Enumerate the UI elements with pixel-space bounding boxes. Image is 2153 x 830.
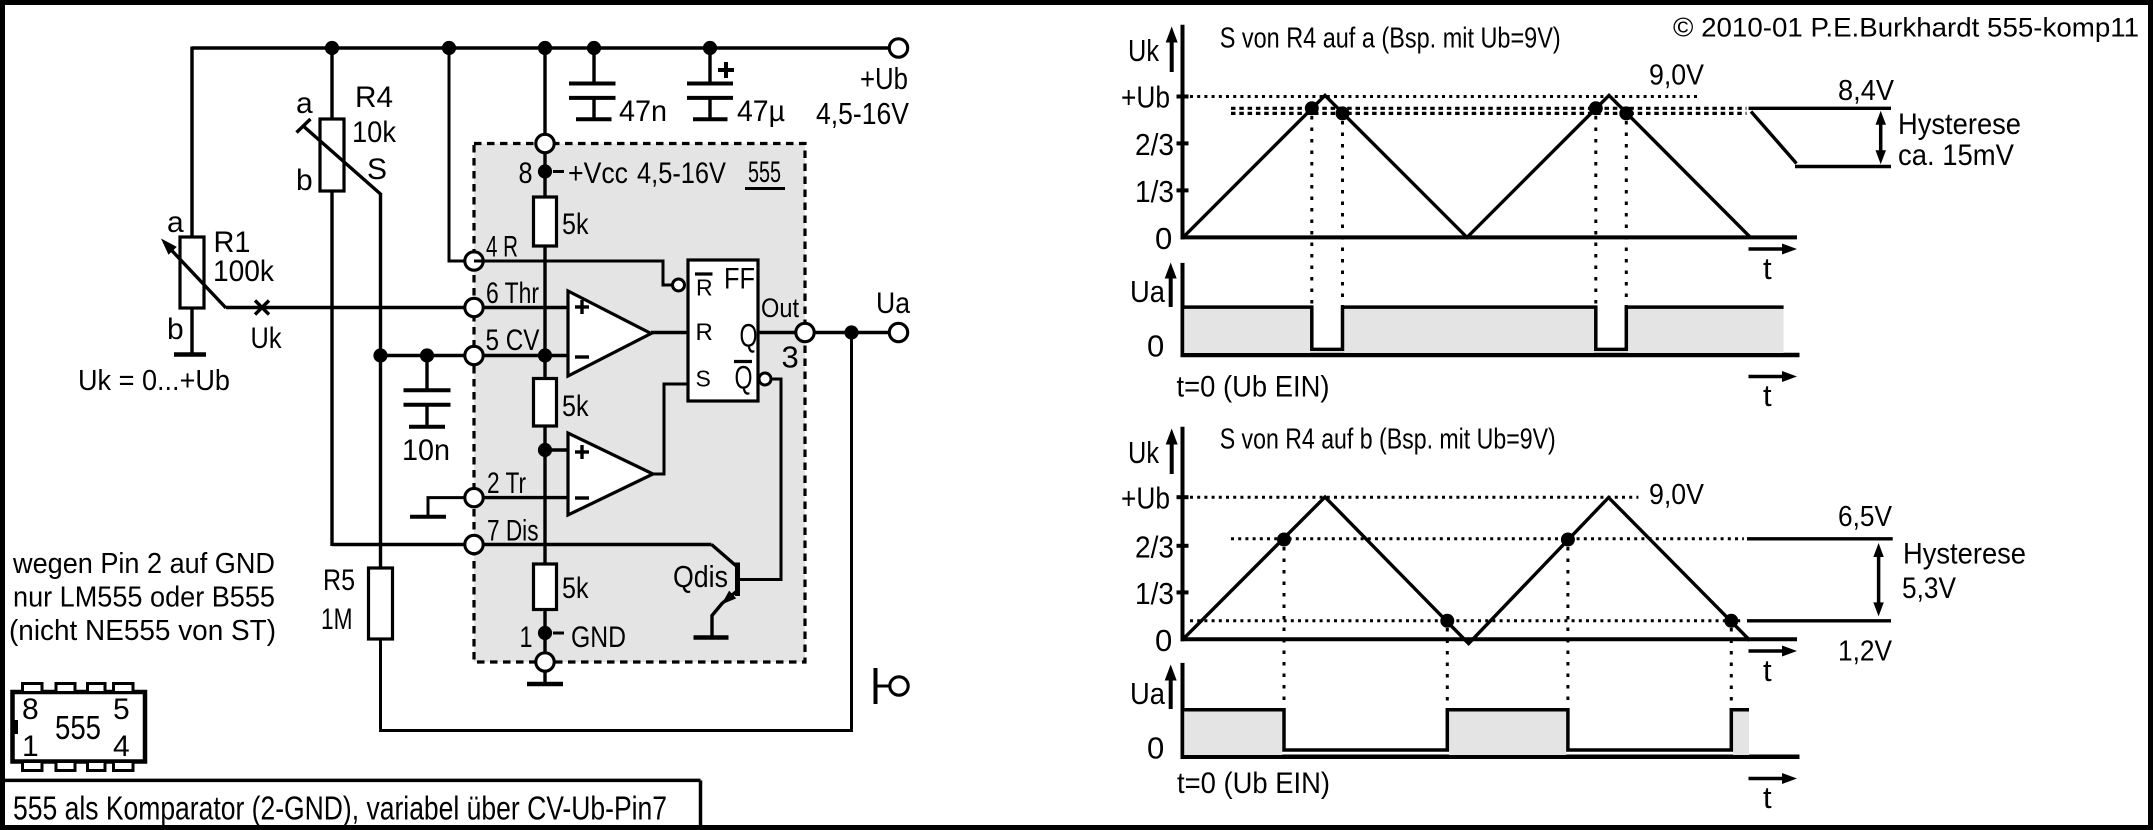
wire R4 wiper to CV node bbox=[379, 193, 382, 356]
diagram B Ua x-axis bbox=[1181, 755, 1800, 760]
diagram B hysteresis double arrow bbox=[1877, 550, 1881, 609]
pin 6 circle bbox=[465, 298, 483, 316]
diagram B trigger dot 3 bbox=[1561, 533, 1575, 547]
wire R4 top lead bbox=[330, 48, 333, 119]
diagram B Uk t-axis arrow bbox=[1749, 649, 1789, 653]
wire R5 bottom feedback run bbox=[381, 333, 852, 731]
FF R-bar inversion bubble bbox=[673, 279, 685, 291]
svg-text:Ua: Ua bbox=[1130, 676, 1166, 711]
wire +Ub top supply rail bbox=[192, 46, 889, 49]
svg-text:R4: R4 bbox=[355, 81, 393, 114]
diagram B Ua gray fill 2 bbox=[1449, 712, 1566, 756]
diagram A Uk t-axis arrow bbox=[1749, 247, 1789, 251]
ground bar under R1 bbox=[174, 352, 206, 357]
svg-text:GND: GND bbox=[571, 621, 626, 654]
svg-text:6 Thr: 6 Thr bbox=[486, 277, 539, 310]
svg-text:FF: FF bbox=[724, 263, 755, 296]
diagram B Ua waveform bbox=[1183, 710, 1750, 750]
svg-text:Hysterese: Hysterese bbox=[1903, 538, 2026, 571]
diagram B trigger dot 4 bbox=[1724, 614, 1738, 628]
wire Ua output line bbox=[814, 331, 889, 334]
diagram B dotted vertical 2 bbox=[1446, 628, 1449, 710]
comp2 minus sign bbox=[575, 496, 589, 499]
wire pin 8 into chain bbox=[543, 153, 546, 198]
diagram A trigger dot 3 bbox=[1589, 101, 1603, 115]
junction dot pin 1 node bbox=[538, 626, 552, 640]
svg-text:6,5V: 6,5V bbox=[1838, 501, 1893, 533]
wire comp2 output to FF S bbox=[653, 384, 688, 474]
svg-text:Out: Out bbox=[761, 293, 799, 323]
svg-text:0: 0 bbox=[1147, 329, 1164, 364]
svg-text:t: t bbox=[1763, 378, 1772, 413]
svg-text:9,0V: 9,0V bbox=[1649, 59, 1705, 91]
diagram B dotted +Ub level line bbox=[1190, 496, 1638, 499]
svg-text:2/3: 2/3 bbox=[1135, 529, 1174, 564]
svg-text:100k: 100k bbox=[213, 255, 275, 288]
resistor 5k lower bbox=[534, 564, 557, 610]
op-amp comparator 1 bbox=[568, 291, 651, 376]
junction dot rail/C 47n bbox=[587, 41, 601, 55]
pin 8 circle bbox=[536, 134, 554, 152]
svg-text:4,5-16V: 4,5-16V bbox=[816, 96, 909, 131]
resistor 5k upper bbox=[534, 197, 557, 246]
wire Uk wiper line to pin 6 Thr bbox=[226, 306, 568, 309]
svg-text:Uk = 0...+Ub: Uk = 0...+Ub bbox=[78, 365, 230, 397]
svg-text:t: t bbox=[1763, 653, 1772, 688]
555 package pin-1 notch bbox=[11, 720, 18, 734]
wire pin 8 Vcc bbox=[543, 48, 546, 144]
capacitor C 47u bbox=[708, 48, 711, 83]
svg-text:8: 8 bbox=[22, 693, 39, 726]
svg-text:1/3: 1/3 bbox=[1135, 576, 1174, 611]
junction dot Ua/feedback bbox=[844, 325, 858, 339]
svg-text:wegen Pin 2 auf GND: wegen Pin 2 auf GND bbox=[12, 548, 275, 580]
wire FF Q to pin 3 bbox=[758, 331, 805, 334]
svg-text:+Ub: +Ub bbox=[1121, 80, 1170, 115]
diagram A triangle waveform Uk bbox=[1183, 95, 1751, 237]
svg-text:R: R bbox=[696, 319, 713, 346]
wire Q-bar to Qdis base bbox=[740, 379, 782, 580]
svg-text:555: 555 bbox=[748, 156, 781, 189]
svg-text:b: b bbox=[296, 164, 313, 197]
diagram A dotted vertical 1 bbox=[1310, 116, 1313, 307]
diagram B Ua gray fill 3 bbox=[1733, 712, 1749, 756]
svg-text:Uk: Uk bbox=[1128, 435, 1159, 470]
svg-text:S von R4 auf a (Bsp. mit Ub=9V: S von R4 auf a (Bsp. mit Ub=9V) bbox=[1220, 23, 1561, 55]
diagram B trigger dot 1 bbox=[1277, 533, 1291, 547]
diagram B dotted vertical 3 bbox=[1566, 547, 1569, 710]
svg-text:2/3: 2/3 bbox=[1135, 127, 1174, 162]
svg-text:1M: 1M bbox=[321, 603, 353, 636]
pin 1 tie dash bbox=[553, 632, 564, 635]
capacitor C 10n bbox=[425, 356, 428, 389]
svg-text:Qdis: Qdis bbox=[673, 559, 728, 594]
pin 5 circle bbox=[465, 346, 483, 364]
C 47u polarity plus sign bbox=[718, 68, 734, 72]
svg-text:Q: Q bbox=[740, 318, 758, 354]
diagram A trigger dot 1 bbox=[1305, 101, 1319, 115]
svg-text:Ua: Ua bbox=[876, 287, 910, 320]
resistor R5 body bbox=[369, 568, 393, 639]
svg-text:5 CV: 5 CV bbox=[486, 324, 540, 357]
diagram B tick +Ub bbox=[1177, 495, 1189, 499]
wire chain middle-lower bbox=[543, 426, 546, 564]
pin 2 circle bbox=[465, 488, 483, 506]
wire pin 1 ground lead bbox=[543, 672, 546, 683]
junction dot rail/pin8 branch bbox=[538, 41, 552, 55]
svg-text:555 als Komparator (2-GND), va: 555 als Komparator (2-GND), variabel übe… bbox=[13, 790, 667, 827]
FF Q-bar inversion bubble bbox=[759, 373, 771, 385]
R1 wiper arrow bbox=[168, 247, 226, 309]
svg-text:2 Tr: 2 Tr bbox=[487, 467, 526, 500]
diagram B trigger dot 2 bbox=[1440, 614, 1454, 628]
svg-text:(nicht NE555 von ST): (nicht NE555 von ST) bbox=[9, 615, 276, 647]
comp1 plus sign bbox=[575, 305, 589, 308]
diagram B Ua y-axis bbox=[1181, 663, 1185, 757]
transistor Qdis base bar bbox=[735, 563, 740, 597]
svg-text:5,3V: 5,3V bbox=[1902, 572, 1956, 605]
diagram B Uk y-axis bbox=[1181, 427, 1185, 641]
diagram A Ua gray fill 2 bbox=[1344, 309, 1594, 353]
svg-text:5k: 5k bbox=[562, 572, 589, 605]
diagram B tick 2/3 bbox=[1177, 544, 1189, 548]
svg-text:1: 1 bbox=[22, 730, 39, 763]
ground bar under 47n bbox=[576, 117, 612, 121]
svg-text:Uk: Uk bbox=[251, 322, 283, 355]
svg-text:47µ: 47µ bbox=[737, 95, 785, 128]
svg-text:1: 1 bbox=[520, 621, 533, 654]
svg-text:Q: Q bbox=[735, 360, 753, 396]
wire left riser to R1 bbox=[190, 47, 193, 238]
svg-text:+Ub: +Ub bbox=[1121, 481, 1170, 516]
wire rail to pin 4 R bbox=[449, 48, 474, 261]
diagram A Uk y-axis bbox=[1181, 25, 1185, 240]
svg-text:9,0V: 9,0V bbox=[1649, 479, 1705, 511]
svg-text:5: 5 bbox=[113, 693, 130, 726]
pin 3 circle bbox=[796, 323, 814, 341]
diagram B dotted vertical 4 bbox=[1730, 628, 1733, 710]
comp2 plus sign bbox=[575, 450, 589, 453]
svg-text:0: 0 bbox=[1155, 623, 1172, 658]
ground bar Qdis emitter bbox=[694, 635, 729, 640]
junction dot rail/R4 bbox=[325, 41, 339, 55]
svg-text:5k: 5k bbox=[562, 208, 589, 241]
svg-text:Hysterese: Hysterese bbox=[1898, 108, 2021, 141]
resistor 5k middle bbox=[534, 379, 557, 427]
Qdis emitter lead with arrow bbox=[712, 591, 738, 637]
svg-text:+Ub: +Ub bbox=[860, 61, 908, 96]
resistor R1 body bbox=[180, 237, 204, 308]
wire chain to comp2 plus bbox=[545, 448, 568, 451]
junction dot rail/C 47mu bbox=[703, 41, 717, 55]
wire CV line bbox=[381, 354, 569, 357]
svg-text:4: 4 bbox=[113, 730, 130, 763]
svg-text:S: S bbox=[367, 153, 387, 186]
svg-text:b: b bbox=[167, 313, 184, 346]
svg-text:4,5-16V: 4,5-16V bbox=[637, 157, 726, 190]
diagram A dotted trigger level lower bbox=[1231, 112, 1747, 115]
svg-text:t=0 (Ub EIN): t=0 (Ub EIN) bbox=[1177, 371, 1330, 404]
diagram A Ua x-axis bbox=[1181, 353, 1800, 358]
svg-text:nur LM555 oder B555: nur LM555 oder B555 bbox=[13, 582, 275, 614]
diagram A Ua gray fill 3 bbox=[1628, 309, 1784, 353]
diagram A Ua gray fill 1 bbox=[1184, 309, 1310, 353]
diagram A trigger dot 4 bbox=[1619, 106, 1633, 120]
svg-text:R: R bbox=[696, 275, 713, 301]
wire R4 b lead down to Dis line bbox=[330, 191, 333, 546]
diagram A dotted vertical 2 bbox=[1341, 121, 1344, 307]
diagram B dotted 6,5V level line bbox=[1231, 537, 1744, 540]
terminal Ua bbox=[889, 323, 907, 341]
junction dot CV/10n bbox=[420, 348, 434, 362]
diagram A dotted vertical 4 bbox=[1625, 121, 1628, 307]
svg-text:1,2V: 1,2V bbox=[1838, 636, 1893, 668]
svg-text:t: t bbox=[1763, 780, 1772, 815]
pin 8 tie dash bbox=[553, 170, 564, 173]
ground bar pin 1 bbox=[527, 682, 563, 687]
junction dot rail/pin4 branch bbox=[442, 41, 456, 55]
diagram A Uk x-axis bbox=[1181, 235, 1798, 239]
flip-flop FF box bbox=[688, 260, 758, 401]
Qdis collector lead bbox=[712, 545, 739, 568]
svg-text:ca. 15mV: ca. 15mV bbox=[1898, 139, 2014, 172]
svg-text:555: 555 bbox=[55, 709, 101, 746]
R4 wiper diagonal with tick bbox=[304, 127, 381, 195]
svg-text:a: a bbox=[296, 87, 313, 120]
svg-text:0: 0 bbox=[1147, 730, 1164, 765]
diagram A hysteresis double arrow bbox=[1879, 118, 1883, 157]
svg-text:7 Dis: 7 Dis bbox=[487, 515, 539, 548]
terminal +Ub bbox=[889, 39, 907, 57]
svg-text:8,4V: 8,4V bbox=[1838, 75, 1895, 107]
diagram B dotted 1,2V level line bbox=[1190, 619, 1741, 622]
diagram A tick 2/3 bbox=[1177, 141, 1189, 145]
resistor R4 body bbox=[320, 119, 344, 191]
diagram A dotted vertical 3 bbox=[1594, 116, 1597, 307]
svg-text:S von R4 auf b (Bsp. mit Ub=9V: S von R4 auf b (Bsp. mit Ub=9V) bbox=[1220, 424, 1556, 456]
wire pin 2 to ground bbox=[428, 498, 465, 515]
ground bar under 10n bbox=[409, 425, 445, 429]
junction dot CV/R5 bbox=[373, 348, 387, 362]
diagram B Uk x-axis bbox=[1181, 637, 1798, 641]
svg-text:a: a bbox=[167, 206, 184, 239]
svg-text:t: t bbox=[1763, 251, 1772, 286]
svg-text:Ua: Ua bbox=[1130, 274, 1166, 309]
svg-text:R5: R5 bbox=[323, 564, 355, 597]
svg-text:47n: 47n bbox=[619, 95, 667, 128]
svg-text:3: 3 bbox=[782, 340, 799, 375]
wire pin 7 discharge line bbox=[332, 543, 712, 546]
wire comp1 output to FF R bbox=[651, 331, 688, 334]
IC 555 internal block (dashed box) bbox=[474, 144, 805, 663]
wire pin 4 to FF R-bar bbox=[474, 261, 672, 285]
caption box bbox=[3, 779, 701, 783]
svg-text:+Vcc: +Vcc bbox=[568, 157, 628, 190]
svg-text:S: S bbox=[696, 366, 711, 392]
diagram B tick 1/3 bbox=[1177, 590, 1189, 594]
diagram A Ua waveform bbox=[1183, 307, 1784, 349]
diagram A Ua t-axis arrow bbox=[1749, 375, 1789, 379]
diagram A Ua y-axis bbox=[1181, 263, 1185, 355]
diagram B Ua gray fill 1 bbox=[1184, 712, 1282, 756]
diagram B dotted vertical 1 bbox=[1283, 547, 1286, 710]
diagram B Ua t-axis arrow bbox=[1749, 777, 1789, 781]
pin 7 circle bbox=[465, 535, 483, 553]
svg-text:0: 0 bbox=[1155, 221, 1172, 256]
diagram A tick 1/3 bbox=[1177, 188, 1189, 192]
wire chain bottom bbox=[543, 610, 546, 663]
diagram A trigger dot 2 bbox=[1336, 106, 1350, 120]
svg-text:© 2010-01 P.E.Burkhardt 555-ko: © 2010-01 P.E.Burkhardt 555-komp11 bbox=[1673, 13, 2139, 43]
ground bar pin 2 bbox=[410, 515, 446, 519]
555 DIP package outline bbox=[13, 692, 146, 762]
pin 4 circle bbox=[465, 252, 483, 270]
wire chain upper-middle bbox=[543, 246, 546, 379]
diagram A tick +Ub bbox=[1177, 95, 1189, 99]
svg-text:10n: 10n bbox=[402, 434, 450, 467]
diagram B solid 6,5V level line bbox=[1747, 537, 1893, 540]
svg-text:5k: 5k bbox=[562, 390, 589, 423]
pin 1 circle bbox=[536, 653, 554, 671]
diagram B solid 1,2V level line bbox=[1747, 619, 1891, 622]
svg-text:8: 8 bbox=[519, 157, 533, 190]
diagram A dotted trigger level upper bbox=[1231, 107, 1747, 110]
op-amp comparator 2 bbox=[568, 433, 653, 515]
wire pin 2 trigger line bbox=[474, 496, 568, 499]
diagram B triangle waveform Uk bbox=[1183, 497, 1750, 644]
svg-text:4 R: 4 R bbox=[486, 231, 518, 264]
diagram A hysteresis inset shape bbox=[1749, 107, 1892, 110]
svg-text:10k: 10k bbox=[352, 116, 397, 149]
junction dot chain/CV bbox=[538, 348, 552, 362]
junction dot chain/comp2 bbox=[538, 443, 552, 457]
svg-text:Uk: Uk bbox=[1128, 33, 1159, 68]
wire CV node down to R5 bbox=[379, 356, 382, 569]
svg-text:1/3: 1/3 bbox=[1135, 174, 1174, 209]
node Uk tap cross marker bbox=[255, 301, 269, 315]
capacitor C 47n bbox=[592, 48, 595, 83]
ground bar under 47u bbox=[693, 117, 728, 121]
diagram A dotted +Ub level line bbox=[1190, 95, 1698, 98]
svg-text:t=0 (Ub EIN): t=0 (Ub EIN) bbox=[1177, 767, 1330, 800]
wire R1 bottom lead bbox=[190, 308, 193, 353]
comp1 minus sign bbox=[575, 355, 589, 358]
junction dot pin 8 node bbox=[538, 164, 552, 178]
terminal 0V socket bbox=[874, 668, 878, 704]
